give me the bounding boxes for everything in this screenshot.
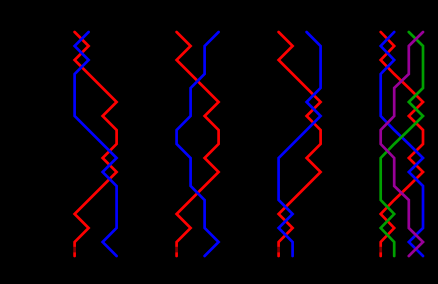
panel 4 magenta line: [381, 32, 423, 256]
panel 3 blue line: [279, 32, 321, 256]
panel 2 red line dark segment artifact: [175, 247, 178, 253]
panel 3 red line: [279, 32, 321, 256]
panel 2 red line: [177, 32, 219, 256]
panel 3 red line dark segment artifact: [277, 247, 280, 253]
panel 1 red line dark segment artifact: [73, 247, 76, 253]
panel 1 red line: [75, 32, 117, 256]
panel 4 red line dark segment artifact: [379, 247, 382, 253]
panel 4 blue line: [381, 32, 423, 256]
panel 1 blue line: [75, 32, 117, 256]
panel 4 red line: [381, 32, 423, 256]
panel 4 green line: [381, 32, 423, 256]
panel 2 blue line: [177, 32, 219, 256]
